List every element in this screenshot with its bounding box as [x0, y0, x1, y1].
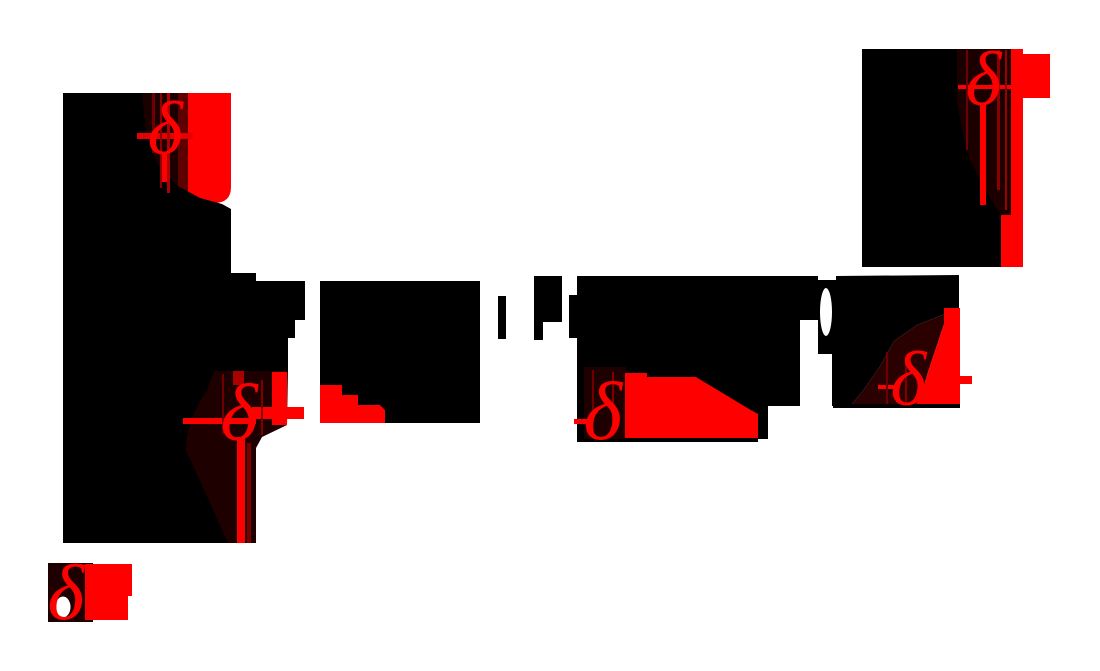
maroon band along central diagonal [848, 308, 959, 406]
minus sign red dash of delta3 label [960, 376, 972, 384]
plus sign horizontal red bar of delta6 label [252, 407, 304, 419]
plus sign red block of bottom-left label [85, 564, 132, 620]
wire red vertical line below delta4 [980, 105, 986, 205]
red vertical column right edge of top-right molecule [1011, 49, 1023, 215]
maroon spill behind delta6 (left molecule lower) [180, 371, 288, 543]
wire red stripe above delta6 [233, 371, 244, 385]
svg-text:δ: δ [584, 365, 624, 457]
svg-text:δ: δ [148, 87, 185, 171]
wire red stripe blend left of red block A [178, 93, 190, 198]
red lower column widening [1001, 215, 1023, 267]
plus sign red block of top-right label [1023, 54, 1050, 98]
wire red vertical line below delta1 [160, 152, 167, 182]
red block right of delta3 [916, 308, 960, 405]
wire red stripe in delta3 spill b [905, 360, 907, 405]
wire red stripe in delta1 spill a [152, 93, 155, 153]
wire thin black line bottom of central mass [833, 404, 960, 408]
block H fragment 2 [534, 276, 562, 340]
svg-text:δ: δ [48, 550, 86, 637]
maroon spill behind delta2 [584, 367, 626, 439]
wire red stripe in delta6 spill a [222, 374, 224, 434]
wire red stripe in delta2 spill b [612, 372, 614, 436]
wire red stripe in delta3 spill a [886, 352, 888, 404]
node A maroon spill behind delta1 (left molecule top) [142, 93, 192, 207]
svg-text:δ: δ [966, 36, 1003, 122]
wire red stripe in delta1 spill b [160, 93, 162, 188]
central molecule black mass [577, 275, 959, 442]
wire red stripe in delta4 spill b [997, 50, 1000, 190]
middle black rectangle M [320, 281, 480, 423]
wire red stripe in delta4 spill a [966, 50, 968, 150]
wire red stripe in delta2 spill a [592, 370, 594, 436]
wire thin red line through delta2 [574, 419, 590, 424]
wire thin red line through delta3 [878, 385, 894, 389]
wire thin red line left of delta1 [137, 133, 193, 139]
wire thin red line through delta4 [958, 85, 1011, 89]
plus sign vertical red bar of delta6 label [272, 372, 287, 425]
svg-text:δ: δ [221, 370, 260, 458]
white notch above C ring [818, 262, 832, 279]
maroon spill behind delta5 (bottom-left label) [48, 563, 93, 622]
wire red stripe in delta1 spill c [167, 93, 170, 193]
wire red stripe in delta4 spill c [1005, 50, 1007, 210]
wire dim red line right of bright line [247, 443, 251, 543]
wire bright red vertical line below delta6 [237, 437, 245, 543]
red wedge central (label spill) [625, 373, 758, 438]
bar H fragment 3 [569, 295, 577, 338]
svg-text:δ: δ [891, 336, 928, 422]
left molecule big black blob [63, 93, 305, 543]
maroon spill behind delta4 (top-right molecule) [957, 49, 1011, 215]
top-right molecule black blob [862, 49, 1001, 267]
C ring white hole [820, 288, 832, 336]
wire thin red horizontal line through delta6 [183, 418, 256, 424]
wire red stripe in delta6 spill b [261, 380, 263, 435]
white gap column below C ring [800, 320, 832, 465]
white hole inside delta5 bowl [56, 597, 71, 618]
red stepped block bottom-left of rectangle M [320, 385, 385, 423]
bar H fragment 1 [498, 296, 506, 339]
node A red block (top-left label background) [188, 93, 231, 203]
